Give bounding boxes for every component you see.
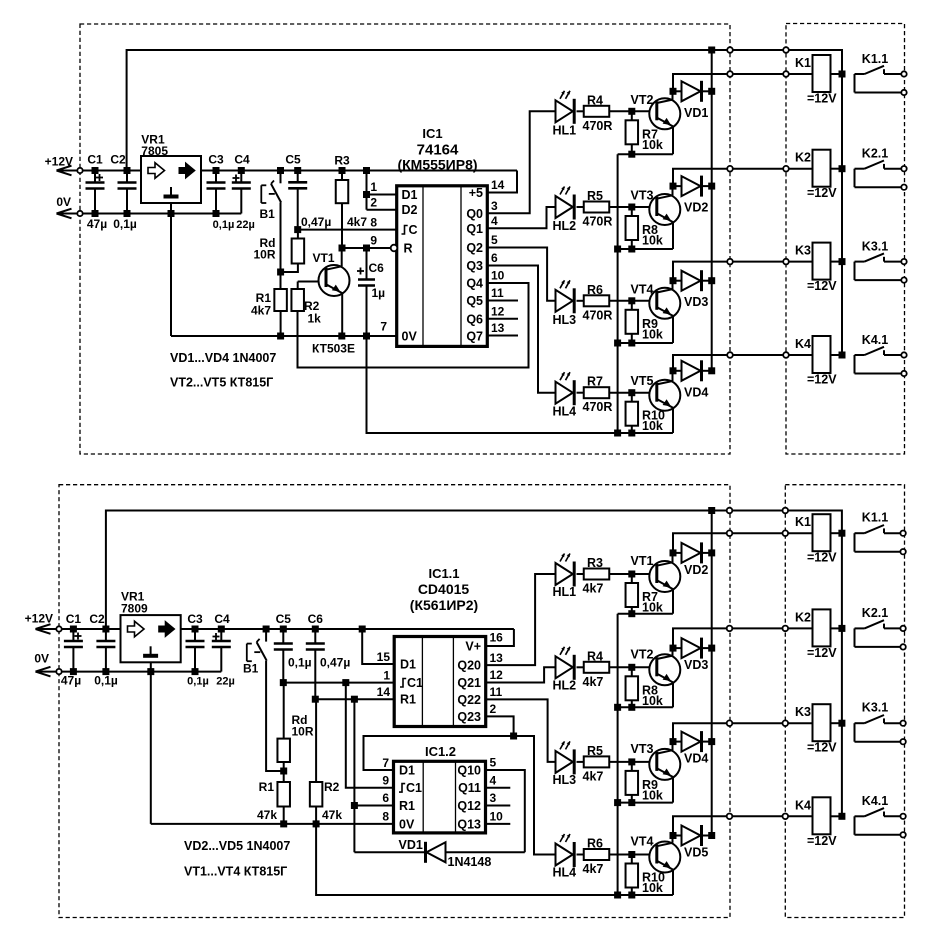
wire emitter row to bus (bottom stage 1) bbox=[618, 613, 673, 615]
wire collector to relay K3 (bottom) bbox=[673, 723, 813, 741]
IC1 pin 3 Q0 to HL1 bbox=[466, 111, 555, 221]
junction base of VT5 (top) bbox=[628, 389, 635, 396]
svg-text:1: 1 bbox=[370, 180, 377, 194]
svg-text:=12V: =12V bbox=[807, 646, 837, 660]
resistor R2 47k (bottom) bbox=[310, 699, 342, 824]
relay contact K1.1 (top) bbox=[855, 52, 907, 95]
LED HL3 (bottom) bbox=[553, 741, 577, 787]
junction relay K4 to +12V return bus (bottom) bbox=[838, 813, 845, 820]
svg-text:K2.1: K2.1 bbox=[862, 606, 888, 620]
wire +12V input rail (top) bbox=[80, 170, 517, 172]
junction VD1 cathode on +12V diode bus (top) bbox=[708, 88, 715, 95]
svg-text:11: 11 bbox=[491, 286, 504, 300]
resistor R4 4k7 (bottom) bbox=[577, 649, 632, 689]
node circle relay wire K4 enters relay unit (bottom) bbox=[783, 814, 789, 820]
LED HL1 (top) bbox=[553, 91, 577, 138]
svg-text:VD1: VD1 bbox=[684, 106, 708, 120]
svg-text:15: 15 bbox=[377, 650, 391, 664]
wire collector to relay K4 (bottom) bbox=[673, 816, 813, 835]
relay coil K2 =12V (top) bbox=[795, 150, 842, 201]
node circle relay wire K4 crosses border (bottom) bbox=[727, 814, 733, 820]
resistor Rd 10R (bottom) bbox=[277, 683, 313, 782]
svg-text:IC1.2: IC1.2 bbox=[425, 744, 456, 759]
capacitor C3 0,1u (top) bbox=[207, 153, 235, 232]
capacitor C2 0,1u (top) bbox=[110, 153, 137, 232]
junction relay K2 to +12V return bus (bottom) bbox=[838, 625, 845, 632]
wire +12V input rail (bottom) bbox=[59, 628, 514, 630]
capacitor C1 47u (top) bbox=[86, 153, 108, 232]
svg-text:K1.1: K1.1 bbox=[862, 52, 888, 66]
resistor R3 4k7 (top) bbox=[334, 154, 367, 249]
resistor R1 4k7 (top) bbox=[251, 289, 287, 336]
svg-text:C1: C1 bbox=[407, 676, 423, 690]
junction base of VT1 (bottom) bbox=[628, 571, 635, 578]
relay contact K4.1 (bottom) bbox=[855, 794, 906, 838]
svg-text:C1: C1 bbox=[66, 612, 82, 626]
svg-text:4k7: 4k7 bbox=[251, 304, 271, 318]
resistor R6 4k7 (bottom) bbox=[577, 837, 632, 877]
svg-text:10k: 10k bbox=[642, 788, 663, 802]
transistor VT4 (top) bbox=[631, 281, 681, 343]
svg-text:0V: 0V bbox=[399, 817, 415, 831]
svg-text:VD4: VD4 bbox=[684, 752, 708, 766]
svg-text:Q20: Q20 bbox=[457, 659, 481, 673]
svg-text:Q4: Q4 bbox=[466, 277, 483, 291]
junction emitter bus (top) bbox=[614, 246, 621, 253]
svg-text:VT5: VT5 bbox=[631, 374, 654, 388]
junction base of VT4 (bottom) bbox=[628, 851, 635, 858]
diode VD1 1N4148 reset pulse (bottom) bbox=[354, 838, 524, 869]
note VT2...VT5 KT815G (top) bbox=[170, 376, 273, 390]
svg-text:Q5: Q5 bbox=[466, 294, 483, 308]
svg-text:V+: V+ bbox=[465, 640, 481, 654]
resistor R10 10k base-emitter (bottom) bbox=[626, 855, 665, 896]
wire collector to relay K4 (top) bbox=[673, 355, 813, 371]
svg-text:R3: R3 bbox=[334, 154, 350, 168]
svg-text:16: 16 bbox=[490, 631, 504, 645]
svg-text:47µ: 47µ bbox=[61, 674, 81, 688]
svg-text:=12V: =12V bbox=[807, 741, 837, 755]
svg-text:VD3: VD3 bbox=[684, 295, 708, 309]
terminal 0V (bottom) bbox=[34, 652, 61, 677]
svg-text:9: 9 bbox=[370, 234, 377, 248]
svg-text:0,1µ: 0,1µ bbox=[94, 674, 118, 688]
transistor VT3 (top) bbox=[631, 186, 681, 249]
junction R8 bottom / emitter (bottom) bbox=[628, 704, 635, 711]
IC1.2 pin 7 D1 label bbox=[382, 756, 415, 778]
LED HL4 (top) bbox=[553, 372, 577, 419]
LED HL1 (bottom) bbox=[553, 554, 577, 600]
junction VD3 cathode on +12V diode bus (bottom) bbox=[708, 645, 715, 652]
relay contact K1.1 (bottom) bbox=[855, 511, 906, 555]
IC1.2 second half box bbox=[394, 744, 486, 833]
svg-text:C2: C2 bbox=[89, 612, 105, 626]
svg-text:C1: C1 bbox=[87, 153, 103, 167]
resistor R7 10k base-emitter (top) bbox=[626, 111, 663, 154]
wire collector to relay K1 (top) bbox=[673, 74, 813, 91]
svg-text:D1: D1 bbox=[400, 658, 416, 672]
svg-text:C5: C5 bbox=[276, 612, 292, 626]
IC1.1 pin 1 clock C1 bbox=[283, 668, 423, 690]
junction VD3 cathode on +12V diode bus (top) bbox=[708, 277, 715, 284]
svg-text:1: 1 bbox=[383, 668, 390, 682]
junction VD2 cathode on +12V diode bus (top) bbox=[708, 183, 715, 190]
relay contact K2.1 (bottom) bbox=[855, 606, 906, 650]
svg-text:4: 4 bbox=[490, 773, 497, 787]
svg-text:C4: C4 bbox=[234, 153, 250, 167]
IC1 pin 5 Q2 to HL3 bbox=[466, 233, 555, 301]
svg-text:R5: R5 bbox=[587, 744, 603, 758]
LED HL3 (top) bbox=[553, 280, 577, 327]
svg-text:+12V: +12V bbox=[25, 612, 53, 626]
relay coil K3 =12V (top) bbox=[795, 243, 842, 294]
svg-text:=12V: =12V bbox=[807, 92, 837, 106]
relay coil K1 =12V (bottom) bbox=[795, 514, 842, 565]
svg-text:3: 3 bbox=[491, 199, 498, 213]
switch B1 (bottom) bbox=[243, 626, 284, 772]
resistor R9 10k base-emitter (bottom) bbox=[626, 762, 663, 803]
flyback diode VD3 (bottom) bbox=[673, 638, 712, 673]
junction R1 bottom on 0V line (top) bbox=[277, 333, 284, 340]
relay contact K3.1 (bottom) bbox=[855, 701, 906, 745]
IC1.2 pin 5 Q10 to VD1 bbox=[457, 756, 524, 853]
svg-text:=12V: =12V bbox=[807, 186, 837, 200]
junction R2 bottom on 0V line (bottom) bbox=[313, 820, 320, 827]
svg-text:K2: K2 bbox=[795, 610, 811, 624]
resistor R2 1k (top) bbox=[291, 282, 321, 326]
svg-text:7805: 7805 bbox=[141, 144, 168, 158]
junction base of VT2 (top) bbox=[628, 108, 635, 115]
junction collector / VD5 anode (bottom) bbox=[670, 832, 677, 839]
svg-text:D2: D2 bbox=[402, 203, 418, 217]
flyback diode VD4 (bottom) bbox=[673, 731, 712, 766]
wire collector to relay K2 (bottom) bbox=[673, 628, 813, 648]
svg-text:VT1: VT1 bbox=[631, 554, 654, 568]
svg-text:=12V: =12V bbox=[807, 279, 837, 293]
junction Q23 branch (bottom) bbox=[510, 733, 517, 740]
wire ground return to emitter bus (bottom) bbox=[316, 824, 617, 895]
svg-text:10k: 10k bbox=[642, 694, 663, 708]
junction R10 bottom / emitter (bottom) bbox=[628, 892, 635, 899]
wire emitter row to bus (bottom stage 2) bbox=[618, 706, 673, 708]
node circle relay wire K1 enters relay unit (bottom) bbox=[783, 530, 789, 536]
IC1.1 pin 15 D1 label bbox=[377, 650, 416, 672]
svg-text:R: R bbox=[404, 242, 413, 256]
IC1.1 pin 14 R1 reset line bbox=[316, 685, 416, 707]
svg-text:1k: 1k bbox=[308, 312, 322, 326]
svg-text:K1.1: K1.1 bbox=[862, 511, 888, 525]
svg-text:7809: 7809 bbox=[121, 602, 148, 616]
transistor VT3 (bottom) bbox=[631, 742, 681, 803]
junction VT1 emitter on 0V line (top) bbox=[338, 333, 345, 340]
svg-text:0,1µ: 0,1µ bbox=[213, 219, 235, 231]
IC1 pin 6 Q3 to HL4 bbox=[466, 251, 555, 393]
junction clock line to IC1.2 (bottom) bbox=[342, 679, 349, 686]
transistor VT4 (bottom) bbox=[631, 835, 681, 896]
capacitor C4 22u (top) bbox=[232, 153, 255, 232]
node circle relay wire K1 crosses border (top) bbox=[727, 71, 733, 77]
junction R7 bottom / emitter (bottom) bbox=[628, 610, 635, 617]
IC1 pin 2 D2 bbox=[367, 195, 418, 217]
IC1.2 pin 8 0V line bbox=[151, 810, 415, 832]
transistor VT5 (top) bbox=[631, 371, 681, 433]
note VT1...VT4 KT815G (bottom) bbox=[184, 865, 287, 879]
svg-text:Q6: Q6 bbox=[466, 312, 483, 326]
node circle top bus enters relay unit (bottom) bbox=[783, 508, 789, 514]
junction collector / VD2 anode (bottom) bbox=[670, 549, 677, 556]
svg-text:Q2: Q2 bbox=[466, 241, 483, 255]
resistor R9 10k base-emitter (top) bbox=[626, 301, 663, 343]
svg-text:VD4: VD4 bbox=[684, 385, 708, 399]
node circle top bus crosses main border (top) bbox=[727, 47, 733, 53]
svg-text:VD2...VD5 1N4007: VD2...VD5 1N4007 bbox=[184, 839, 290, 853]
IC1 pin 1 D1 bbox=[367, 180, 418, 202]
svg-text:470R: 470R bbox=[583, 119, 613, 133]
dashed border relay contacts unit (bottom) bbox=[785, 485, 904, 918]
node circle relay wire K2 enters relay unit (bottom) bbox=[783, 626, 789, 632]
svg-text:VD5: VD5 bbox=[684, 846, 708, 860]
resistor R8 10k base-emitter (top) bbox=[626, 207, 663, 249]
node circle relay wire K4 enters relay unit (top) bbox=[783, 352, 789, 358]
svg-text:10: 10 bbox=[491, 269, 505, 283]
IC1 pin 8 clock C bbox=[298, 215, 418, 237]
svg-text:K4: K4 bbox=[795, 798, 811, 812]
svg-text:0,47µ: 0,47µ bbox=[301, 215, 331, 229]
junction emitter bus (bottom) bbox=[614, 892, 621, 899]
terminal 0V (top) bbox=[56, 195, 82, 219]
svg-text:K3: K3 bbox=[795, 244, 811, 258]
svg-text:K4: K4 bbox=[795, 337, 811, 351]
relay contact K2.1 (top) bbox=[855, 147, 907, 190]
voltage regulator VR1 7805 (top) bbox=[141, 133, 201, 204]
emitter ground bus (top) bbox=[617, 154, 619, 433]
junction base of VT3 (bottom) bbox=[628, 758, 635, 765]
wire 0V input rail (top) bbox=[80, 213, 241, 215]
svg-text:R1: R1 bbox=[259, 780, 275, 794]
junction C6 bottom on 0V line (top) bbox=[363, 333, 370, 340]
svg-text:10k: 10k bbox=[642, 881, 663, 895]
svg-text:K2.1: K2.1 bbox=[862, 147, 888, 161]
svg-text:Q13: Q13 bbox=[457, 817, 481, 831]
svg-text:3: 3 bbox=[490, 791, 497, 805]
IC1.1 pin 11 Q22 to HL3 bbox=[457, 685, 555, 762]
node circle relay wire K4 crosses border (top) bbox=[727, 352, 733, 358]
svg-text:VT4: VT4 bbox=[631, 282, 654, 296]
IC1.1 pin 16 V+ supply bbox=[465, 629, 514, 654]
svg-text:C2: C2 bbox=[110, 153, 126, 167]
flyback diode VD3 (top) bbox=[673, 270, 712, 309]
+12V diode bus vertical (top) bbox=[711, 50, 713, 371]
svg-text:4k7: 4k7 bbox=[347, 215, 367, 229]
node circle relay wire K1 enters relay unit (top) bbox=[783, 71, 789, 77]
svg-text:R2: R2 bbox=[324, 780, 340, 794]
svg-text:6: 6 bbox=[491, 251, 498, 265]
IC1.2 pin 6 R1 bbox=[354, 699, 415, 852]
svg-text:D1: D1 bbox=[399, 764, 415, 778]
resistor R4 470R (top) bbox=[577, 93, 632, 133]
svg-text:C6: C6 bbox=[308, 612, 324, 626]
svg-text:C3: C3 bbox=[187, 612, 203, 626]
svg-text:K2: K2 bbox=[795, 151, 811, 165]
node circle relay wire K1 crosses border (bottom) bbox=[727, 530, 733, 536]
flyback diode VD5 (bottom) bbox=[673, 825, 712, 860]
svg-text:14: 14 bbox=[491, 178, 505, 192]
junction VD2 cathode on +12V diode bus (bottom) bbox=[708, 549, 715, 556]
IC1.1 pin 13 Q20 to HL1 bbox=[457, 574, 555, 673]
svg-text:K3.1: K3.1 bbox=[862, 701, 888, 715]
svg-text:K4.1: K4.1 bbox=[862, 333, 888, 347]
note VD1...VD4 1N4007 (top) bbox=[170, 351, 276, 365]
relay contact K4.1 (top) bbox=[855, 333, 907, 376]
capacitor C1 47u (bottom) bbox=[61, 612, 83, 688]
svg-text:10k: 10k bbox=[642, 327, 663, 341]
svg-text:R4: R4 bbox=[587, 649, 603, 663]
transistor VT1 (bottom) bbox=[631, 553, 681, 614]
resistor R3 4k7 (bottom) bbox=[577, 556, 632, 596]
svg-text:C3: C3 bbox=[208, 153, 224, 167]
relay coil K3 =12V (bottom) bbox=[795, 704, 842, 755]
LED HL2 (top) bbox=[553, 187, 577, 234]
junction reset column / pin 6 (bottom) bbox=[351, 802, 358, 809]
svg-text:10R: 10R bbox=[292, 725, 314, 739]
wire emitter row to bus (top stage 1) bbox=[618, 153, 673, 155]
svg-text:HL1: HL1 bbox=[553, 123, 577, 137]
IC1 pin 12 Q6 stub bbox=[466, 305, 518, 327]
capacitor C6 0,47u (bottom) bbox=[306, 612, 351, 703]
wire +12V top bus to relays (bottom) bbox=[106, 511, 842, 817]
IC1.2 pin 9 clock C1 bbox=[346, 683, 422, 796]
svg-text:14: 14 bbox=[377, 685, 391, 699]
wire emitter row to bus (top stage 4) bbox=[618, 432, 673, 434]
svg-text:Q23: Q23 bbox=[457, 710, 481, 724]
svg-text:VT2: VT2 bbox=[631, 647, 654, 661]
svg-text:K1: K1 bbox=[795, 515, 811, 529]
node circle relay wire K2 crosses border (bottom) bbox=[727, 626, 733, 632]
svg-text:VD2: VD2 bbox=[684, 201, 708, 215]
svg-text:HL3: HL3 bbox=[553, 313, 577, 327]
node circle top bus enters relay unit (top) bbox=[783, 47, 789, 53]
junction VT1 collector / R3 / reset line (top) bbox=[339, 245, 346, 252]
svg-text:0,1µ: 0,1µ bbox=[113, 217, 137, 231]
svg-text:8: 8 bbox=[382, 810, 389, 824]
svg-text:Q12: Q12 bbox=[457, 799, 481, 813]
IC1.2 pin 4 Q11 stub bbox=[458, 773, 510, 795]
transistor VT1 KT503E (top) bbox=[298, 248, 355, 356]
IC1 pin 10 Q4 feedback to R2 bbox=[298, 269, 529, 368]
junction relay K3 to +12V return bus (bottom) bbox=[838, 720, 845, 727]
svg-text:VD2: VD2 bbox=[684, 563, 708, 577]
svg-text:K3: K3 bbox=[795, 705, 811, 719]
junction top bus / diode bus (top) bbox=[708, 47, 715, 54]
IC1.1 CD4015 K561IR2 shift register box bbox=[394, 566, 486, 727]
wire ground return to emitter bus (top) bbox=[367, 336, 618, 433]
svg-text:R6: R6 bbox=[587, 837, 603, 851]
resistor R10 10k base-emitter (top) bbox=[626, 393, 665, 434]
switch B1 (top) bbox=[260, 167, 285, 289]
svg-text:4k7: 4k7 bbox=[583, 862, 604, 876]
svg-text:B1: B1 bbox=[260, 207, 276, 221]
junction relay K1 to +12V return bus (top) bbox=[839, 71, 846, 78]
junction emitter bus (top) bbox=[614, 430, 621, 437]
dashed border relay contacts unit (top) bbox=[786, 24, 905, 455]
terminal +12V (bottom) bbox=[25, 612, 62, 634]
junction base of VT4 (top) bbox=[628, 297, 635, 304]
svg-text:C6: C6 bbox=[369, 261, 385, 275]
svg-text:(КМ555ИР8): (КМ555ИР8) bbox=[397, 157, 477, 173]
svg-text:+5: +5 bbox=[469, 186, 483, 200]
svg-text:470R: 470R bbox=[583, 215, 613, 229]
junction reset line to IC1.2 and VD1 (bottom) bbox=[351, 696, 358, 703]
svg-text:VT2: VT2 bbox=[631, 93, 654, 107]
svg-text:22µ: 22µ bbox=[236, 219, 255, 231]
svg-text:10k: 10k bbox=[642, 138, 663, 152]
IC1 pin 14 +5 supply bbox=[469, 171, 517, 201]
voltage regulator VR1 7809 (bottom) bbox=[121, 590, 181, 663]
svg-text:470R: 470R bbox=[583, 308, 613, 322]
junction R1 bottom on 0V line (bottom) bbox=[280, 820, 287, 827]
IC1 pin 7 0V bbox=[171, 320, 417, 344]
svg-text:Q0: Q0 bbox=[466, 207, 483, 221]
svg-text:12: 12 bbox=[490, 668, 504, 682]
relay coil K1 =12V (top) bbox=[795, 55, 842, 106]
svg-text:Q7: Q7 bbox=[466, 330, 483, 344]
wire emitter row to bus (bottom stage 4) bbox=[618, 894, 673, 896]
IC1.2 pin 10 Q13 stub bbox=[457, 810, 510, 832]
capacitor C3 0,1u (bottom) bbox=[186, 612, 209, 688]
svg-text:7: 7 bbox=[380, 320, 387, 334]
svg-text:470R: 470R bbox=[583, 400, 613, 414]
svg-text:R6: R6 bbox=[587, 283, 603, 297]
svg-text:C5: C5 bbox=[285, 153, 301, 167]
junction VD4 cathode on +12V diode bus (top) bbox=[708, 367, 715, 374]
svg-text:K4.1: K4.1 bbox=[862, 794, 888, 808]
+12V diode bus vertical (bottom) bbox=[711, 511, 713, 836]
wire emitter row to bus (top stage 2) bbox=[618, 248, 673, 250]
LED HL4 (bottom) bbox=[553, 834, 577, 880]
svg-text:Q22: Q22 bbox=[457, 693, 481, 707]
junction collector / VD1 anode (top) bbox=[670, 88, 677, 95]
transistor VT2 (top) bbox=[631, 91, 681, 154]
svg-text:C: C bbox=[409, 223, 418, 237]
svg-text:IC1.1: IC1.1 bbox=[428, 566, 459, 581]
svg-text:C1: C1 bbox=[406, 781, 422, 795]
svg-text:Q1: Q1 bbox=[466, 222, 483, 236]
IC1.1 pin 2 Q23 to IC1.2 D1 and HL4 bbox=[364, 702, 556, 854]
junction R10 bottom / emitter (top) bbox=[628, 430, 635, 437]
svg-text:7: 7 bbox=[382, 756, 389, 770]
junction collector / VD3 anode (top) bbox=[670, 277, 677, 284]
wire collector to relay K2 (top) bbox=[673, 169, 813, 186]
svg-text:6: 6 bbox=[382, 791, 389, 805]
junction VD5 cathode on +12V diode bus (bottom) bbox=[708, 832, 715, 839]
junction R7 bottom / emitter (top) bbox=[628, 151, 635, 158]
svg-text:10k: 10k bbox=[642, 601, 663, 615]
junction R8 bottom / emitter (top) bbox=[628, 246, 635, 253]
svg-text:Q11: Q11 bbox=[458, 781, 481, 795]
relay coil K4 =12V (bottom) bbox=[795, 797, 842, 848]
IC1 pin 13 Q7 stub bbox=[466, 321, 518, 343]
junction B1 column / Rd (top) bbox=[277, 269, 284, 276]
svg-text:10k: 10k bbox=[642, 234, 663, 248]
resistor R5 470R (top) bbox=[577, 189, 632, 229]
junction relay K4 to +12V return bus (top) bbox=[839, 352, 846, 359]
junction emitter bus (bottom) bbox=[614, 704, 621, 711]
IC1.2 pin 3 Q12 stub bbox=[457, 791, 510, 813]
svg-text:Q3: Q3 bbox=[466, 259, 483, 273]
svg-text:HL1: HL1 bbox=[553, 585, 577, 599]
junction collector / VD4 anode (top) bbox=[670, 367, 677, 374]
junction collector / VD3 anode (bottom) bbox=[670, 645, 677, 652]
